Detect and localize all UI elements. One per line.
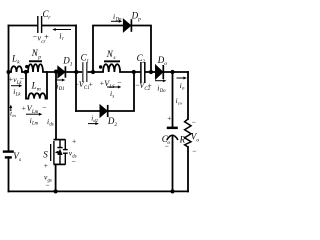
label Lk	[11, 54, 20, 66]
wire vertical x76 from top wire down to D2 branch	[75, 26, 77, 112]
label is	[110, 89, 114, 100]
label D1	[62, 56, 73, 68]
wire D2 branch right part and vertical up x134	[108, 72, 134, 111]
svg-text:−: −	[42, 103, 46, 112]
svg-text:L: L	[11, 54, 17, 64]
svg-text:r: r	[62, 37, 64, 42]
current arrow iLk	[11, 84, 22, 87]
switch box top bar	[54, 139, 66, 141]
label C1	[81, 53, 90, 65]
label iLk	[13, 87, 21, 98]
svg-text:−: −	[192, 118, 196, 127]
diode Do	[156, 65, 164, 79]
node dot switch bottom	[54, 189, 58, 193]
svg-text:o: o	[196, 138, 199, 144]
svg-text:s: s	[113, 55, 115, 61]
core bar Ns	[104, 60, 120, 62]
diode D1	[58, 66, 66, 77]
svg-text:−: −	[20, 74, 24, 83]
load resistor R zigzag	[185, 119, 191, 147]
label +VLS-	[100, 78, 122, 90]
node dot switch branch	[54, 70, 58, 74]
label Do	[157, 55, 168, 67]
svg-text:m: m	[37, 87, 41, 93]
wire bottom rail	[9, 190, 189, 192]
wire Cr to drop x76	[42, 25, 76, 27]
current arrow io	[177, 77, 187, 80]
svg-text:+: +	[89, 80, 93, 89]
svg-text:−: −	[165, 142, 169, 151]
label ids	[47, 117, 54, 128]
svg-text:2: 2	[142, 59, 145, 65]
label iDp	[113, 12, 122, 23]
wire switch source vertical to bottom	[55, 164, 57, 191]
wire main y72 Ns to C2	[120, 71, 140, 73]
svg-text:+: +	[72, 137, 76, 146]
label Np	[31, 48, 41, 60]
label iD1	[56, 82, 64, 93]
svg-text:s: s	[19, 157, 21, 163]
wire main y72 Np to D1	[43, 71, 58, 73]
current arrow iDp	[111, 20, 122, 23]
svg-text:D1: D1	[58, 87, 65, 92]
wire D2 branch horizontal left part	[76, 110, 100, 112]
capacitor C1	[83, 62, 87, 82]
label ico	[176, 97, 183, 106]
wire Lm branch left vertical	[25, 72, 27, 99]
node dot Lk-Np junction	[24, 70, 28, 74]
core bar Np	[29, 60, 42, 62]
inductor Lk	[11, 66, 22, 72]
svg-text:Lk: Lk	[15, 93, 22, 98]
node dot Co bottom	[170, 189, 174, 193]
wire Lm branch right vertical	[46, 72, 48, 99]
label C2	[137, 53, 146, 65]
output capacitor Co top plate	[167, 127, 178, 130]
node dot rail-main	[6, 70, 10, 74]
node dot Dp drop left	[91, 70, 95, 74]
svg-text:p: p	[137, 17, 141, 23]
label +vLk-	[9, 74, 24, 86]
coupled inductor primary Np	[28, 64, 43, 72]
label Vo	[191, 132, 200, 144]
wire Dp cathode to corner x151 down to main wire	[132, 26, 151, 73]
wire main y72 Lk to Np	[22, 71, 28, 73]
wire main y72 C1 to Ns	[87, 71, 103, 73]
svg-text:s: s	[112, 95, 114, 100]
label Cr	[43, 9, 52, 21]
svg-text:−: −	[45, 181, 49, 190]
label iLm	[30, 116, 39, 127]
node dot output	[170, 70, 174, 74]
wire below load R to bottom rail	[187, 147, 189, 191]
label id2	[91, 115, 98, 124]
svg-text:Dp: Dp	[115, 18, 122, 23]
current arrow id2	[88, 122, 99, 125]
label D2	[107, 116, 118, 128]
svg-text:d2: d2	[93, 118, 98, 123]
current arrow iLm	[26, 113, 42, 116]
svg-text:−: −	[117, 78, 121, 87]
label -vcr+	[33, 33, 50, 46]
diode D2	[100, 105, 108, 117]
wire Co branch lower	[172, 136, 174, 192]
wire main y72 C2 to Do	[145, 71, 155, 73]
wire left rail upper	[8, 26, 10, 151]
diode Dp	[123, 19, 131, 32]
svg-text:co: co	[178, 101, 183, 106]
current arrow iin	[9, 105, 12, 111]
wire main y72 D1 to C1	[66, 71, 82, 73]
label Ns	[106, 49, 116, 61]
snubber capacitor Cs leads	[64, 140, 66, 165]
polarity dot Np	[25, 65, 28, 68]
node dot Dp drop right	[149, 70, 153, 74]
battery source Vs long plate	[3, 150, 14, 152]
svg-text:+: +	[44, 161, 48, 170]
body diode Ds symbol	[57, 147, 62, 155]
svg-text:+: +	[44, 33, 49, 42]
label vds	[69, 149, 77, 160]
wire right drop x188 to load R top	[187, 72, 189, 119]
label -VC2+	[135, 81, 152, 93]
wire switch drain vertical x56	[55, 72, 57, 140]
capacitor Cr	[38, 16, 42, 33]
snubber capacitor Cs plates	[63, 150, 68, 154]
polarity dot Ns	[99, 65, 102, 68]
svg-text:Do: Do	[159, 89, 166, 94]
current arrow iDo	[155, 79, 166, 82]
label ir	[59, 32, 64, 43]
wire vertical x93 node to top wire and right to Dp	[93, 26, 124, 73]
label Co	[162, 134, 171, 146]
body diode Ds vertical leads	[59, 140, 61, 165]
svg-text:o: o	[164, 61, 167, 67]
label iDo	[157, 84, 166, 95]
svg-text:+: +	[148, 81, 152, 90]
svg-text:S: S	[43, 150, 48, 160]
svg-text:L: L	[31, 81, 37, 91]
wire main y72 Do to output corner	[164, 71, 189, 73]
label Lm	[31, 81, 41, 93]
svg-text:ds: ds	[49, 123, 53, 128]
label Dp	[131, 11, 142, 23]
MOSFET switch S gate bar	[50, 144, 51, 161]
current arrow is	[107, 86, 121, 89]
output capacitor Co curved plate	[167, 135, 178, 140]
battery source Vs short plate	[5, 156, 12, 158]
node dot D2 riser	[132, 70, 136, 74]
svg-text:−: −	[72, 157, 76, 166]
svg-text:p: p	[37, 54, 41, 60]
wire Co branch upper	[172, 72, 174, 127]
wire main y72 segment rail to Lk	[9, 71, 12, 73]
svg-text:+: +	[167, 114, 171, 123]
label io	[180, 81, 185, 92]
svg-text:+: +	[22, 104, 26, 113]
svg-text:−: −	[192, 147, 196, 156]
svg-text:Lm: Lm	[31, 122, 39, 127]
wire top-left rail horizontal to Cr	[9, 25, 38, 27]
magnetizing inductor Lm	[26, 93, 47, 98]
label +VLm-	[22, 103, 47, 115]
svg-text:1: 1	[86, 59, 89, 65]
MOSFET body arrow	[55, 151, 59, 154]
label Vs	[13, 151, 21, 163]
svg-text:1: 1	[70, 62, 73, 68]
svg-text:R: R	[179, 135, 186, 145]
capacitor C2	[141, 62, 145, 83]
current arrow iD1	[55, 79, 65, 82]
label vgs	[44, 173, 52, 184]
MOSFET channel bar	[53, 141, 54, 164]
switch box bottom bar	[54, 163, 66, 165]
current arrow ir	[52, 28, 71, 31]
svg-text:2: 2	[114, 122, 117, 128]
label iin	[10, 110, 16, 119]
label -VC1+	[75, 80, 93, 92]
node dot Cr drop	[74, 70, 78, 74]
wire left rail lower below battery	[8, 159, 10, 192]
coupled inductor secondary Ns	[103, 64, 120, 72]
